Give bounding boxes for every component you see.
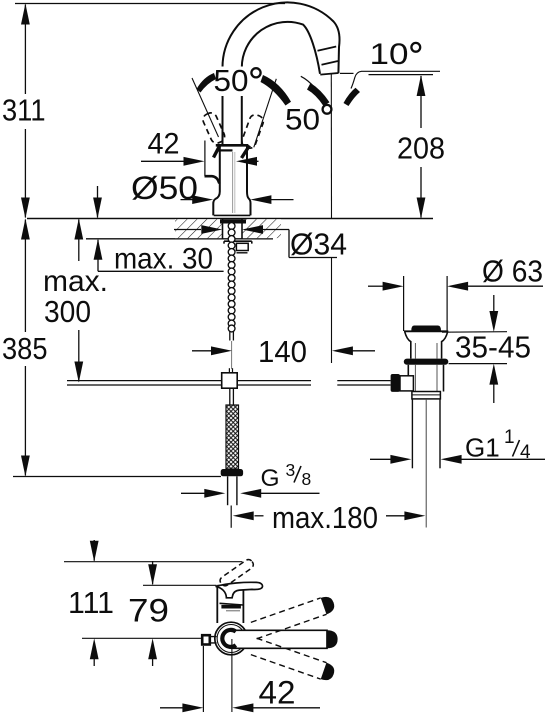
- dim Ø63 arrows: [368, 285, 383, 287]
- side inlet block: [202, 635, 210, 644]
- horizontal pop-up linkage rod right: [337, 380, 390, 382]
- dim max.30 lower arrow: [97, 240, 99, 271]
- svg-text:42: 42: [259, 675, 296, 711]
- drain tailpipe: [411, 399, 413, 468]
- dim max.300 line lower part: [78, 330, 80, 382]
- cap bottom slant line: [220, 603, 244, 605]
- svg-text:35-45: 35-45: [455, 330, 531, 365]
- dim max.30 upper arrow: [97, 186, 99, 218]
- horizontal pop-up linkage rod middle: [237, 380, 311, 382]
- counter bottom line: [86, 238, 273, 240]
- svg-text:50: 50: [214, 63, 249, 98]
- dim G3/8 arrows: [181, 492, 205, 494]
- svg-text:208: 208: [397, 131, 445, 166]
- dim 79: [152, 561, 154, 584]
- drain lower body: [407, 365, 409, 392]
- 50deg#1 arc left arrowhead: [197, 73, 217, 93]
- svg-text:Ø 63: Ø 63: [482, 254, 543, 289]
- dashed lever raised position: [218, 558, 255, 588]
- centerline below circle: [231, 639, 233, 712]
- lever base plate line: [217, 149, 233, 151]
- body bottom line: [214, 214, 251, 216]
- lever base nub right: [242, 146, 250, 159]
- ref line body top level: [143, 584, 217, 586]
- dim 140: [192, 350, 222, 352]
- dim G1 1/4 arrows: [370, 458, 391, 460]
- svg-text:G1: G1: [465, 433, 500, 463]
- pivot circle inner ring: [217, 625, 245, 653]
- ref line lever tip level: [64, 561, 242, 563]
- lever base nub left: [214, 146, 220, 158]
- 10 degree arc arrowhead: [344, 88, 361, 106]
- spout inner curve: [242, 22, 320, 146]
- side inlet knob (black): [391, 374, 400, 392]
- counter hatching right of faucet: [242, 219, 281, 238]
- spout outlet bottom edge: [320, 73, 338, 75]
- spout arm black end cap: [327, 630, 338, 648]
- spout outer curve: [222, 2, 339, 145]
- svg-text:Ø50: Ø50: [131, 170, 198, 206]
- svg-text:42: 42: [148, 128, 180, 161]
- svg-text:max. 30: max. 30: [114, 243, 213, 276]
- dashed lever left position: [201, 111, 226, 145]
- 50deg#2 swivel arc with arrowhead: [301, 76, 314, 87]
- ext line from inlet face: [202, 646, 204, 712]
- dim max.300 line upper part: [78, 220, 80, 262]
- ext line below G3/8 pipe: [230, 506, 232, 528]
- dim 311 arrows: [21, 4, 30, 25]
- 50deg#1 arc right arrowhead: [261, 75, 292, 106]
- svg-text:4: 4: [520, 442, 531, 463]
- dim 208 extension line (outlet level): [369, 74, 434, 76]
- dim 42 bottom: [160, 707, 183, 709]
- svg-text:79: 79: [128, 593, 169, 629]
- pop-up rod threaded (ball chain): [228, 223, 235, 332]
- dim 385 arrows: [21, 219, 30, 240]
- dim 111: [93, 540, 95, 561]
- dashed swivel arm down: [251, 638, 337, 682]
- outlet bottom edge extension: [340, 72, 354, 74]
- svg-text:111: 111: [68, 585, 114, 620]
- braided flex hose: [226, 405, 239, 469]
- shank hole edge lines: [222, 219, 224, 239]
- dim Ø34 leader line: [174, 229, 201, 231]
- washer under counter: [224, 241, 252, 243]
- dim 208 vertical line: [420, 76, 422, 128]
- arm left end thick C cap: [222, 630, 236, 647]
- svg-text:50: 50: [285, 104, 320, 137]
- pop-up knob hook on body left: [205, 176, 220, 183]
- svg-text:8: 8: [302, 469, 312, 489]
- body inner shading lines: [232, 152, 234, 213]
- counter top line: [27, 218, 433, 220]
- svg-text:3: 3: [286, 460, 296, 480]
- svg-text:G: G: [261, 465, 280, 492]
- top extension line: [15, 3, 285, 5]
- dim 42 top line + arrows: [141, 160, 198, 162]
- dim max.180 left arrow: [233, 511, 254, 520]
- counter hatching left of faucet: [175, 219, 222, 238]
- lever 50deg right axis line: [254, 79, 276, 148]
- lever 50deg left axis line: [192, 78, 219, 137]
- drain flange: [404, 330, 448, 332]
- dim 35-45 extension lines: [442, 331, 507, 334]
- ref line spout axis level: [82, 637, 203, 639]
- dashed swivel arm up: [251, 594, 337, 638]
- G3/8 thread pipe: [227, 476, 229, 505]
- body (bottom view) sides: [216, 586, 218, 624]
- svg-text:max.180: max.180: [272, 500, 378, 535]
- dark band: [221, 605, 241, 609]
- rod coupler: [222, 373, 238, 388]
- dim max.180 right arrow: [386, 515, 405, 517]
- dim 42 top: extension line from lever tip: [204, 141, 206, 177]
- dim Ø50 line + arrows: [181, 199, 198, 201]
- white knockout for 50deg label: [212, 67, 266, 97]
- svg-text:311: 311: [2, 93, 46, 128]
- spout arm (solid, pointing right): [231, 630, 327, 648]
- drain centerline: [425, 399, 427, 528]
- svg-text:Ø34: Ø34: [290, 227, 347, 262]
- body top edge: [216, 144, 249, 147]
- dim 311 vertical line: [24, 5, 26, 218]
- drain top seal (black): [411, 326, 441, 331]
- 10 degree reference line with hook: [351, 71, 440, 88]
- drain bottom cap: [412, 392, 441, 399]
- mounting nut: [236, 243, 248, 250]
- outlet band lines: [318, 47, 337, 51]
- svg-text:300: 300: [44, 294, 91, 329]
- dashed lever right position: [240, 113, 265, 150]
- hose end nut: [221, 469, 243, 476]
- faucet body upper: [213, 146, 220, 216]
- svg-text:385: 385: [2, 331, 48, 366]
- horizontal pop-up linkage rod left: [67, 380, 222, 382]
- drain waste: dim Ø63 extension lines: [403, 276, 405, 331]
- max.30 leader underline: [98, 270, 224, 272]
- solid lever (top): [216, 582, 263, 598]
- outlet axis vertical line: [330, 75, 332, 219]
- clamp black ring: [404, 359, 449, 365]
- bottom reference line (hose end level): [13, 476, 221, 478]
- svg-text:10: 10: [370, 38, 409, 71]
- supply hose upper: [229, 388, 231, 405]
- svg-text:140: 140: [258, 334, 307, 369]
- pivot circle outer: [215, 622, 248, 655]
- dim 35-45 arrows: [493, 295, 495, 312]
- flange inner lines: [414, 343, 416, 359]
- side inlet body: [400, 376, 413, 391]
- dim 385 vertical line: [24, 220, 26, 476]
- base seal black bar under body: [220, 219, 246, 223]
- pop-up rod lower smooth part: [229, 331, 231, 341]
- svg-text:1: 1: [504, 427, 515, 448]
- faint rod centerline: [231, 341, 233, 369]
